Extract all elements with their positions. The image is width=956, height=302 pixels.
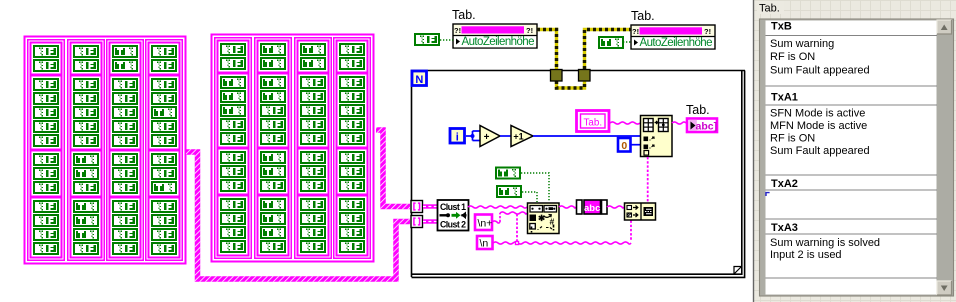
- wire cluster K1 to loop tunnel T2: [186, 152, 410, 279]
- boolean constant K1.c4[1] (F): [151, 45, 177, 58]
- boolean constant K2.c3[1] (T): [300, 43, 326, 56]
- svg-text:Tab.: Tab.: [759, 3, 780, 15]
- wire \n branch up: [516, 214, 518, 241]
- cluster K2 column 1 frame: [215, 38, 251, 258]
- boolean constant K1.c1[7] (F): [33, 134, 59, 147]
- boolean constant K2.c3[8] (F): [300, 151, 326, 164]
- boolean constant K2.c3[12] (F): [300, 212, 326, 225]
- cluster K1 column 2 group 2 frame: [71, 76, 102, 150]
- boolean constant K2.c4[5] (F): [339, 104, 365, 117]
- boolean constant K1.c3[4] (F): [112, 92, 138, 105]
- wire T2 to search-replace: [522, 192, 537, 202]
- string conversion function: [625, 203, 656, 220]
- cluster K1 column 4 group 1 frame: [149, 43, 180, 75]
- boolean constant K2.c4[6] (F): [339, 118, 365, 131]
- boolean constant K1.c1[11] (F): [33, 200, 59, 213]
- boolean constant K1.c2[4] (F): [73, 92, 99, 105]
- boolean constant K1.c4[8] (F): [151, 153, 177, 166]
- boolean constant K2.c2[9] (T): [260, 165, 286, 178]
- boolean constant K2.c1[6] (F): [220, 118, 246, 131]
- svg-text:Sum warning is solved: Sum warning is solved: [770, 237, 880, 249]
- boolean constant K2.c2[12] (T): [260, 212, 286, 225]
- cluster K2 column 3 group 3 frame: [298, 149, 329, 195]
- refnum tunnel B: [579, 70, 591, 82]
- boolean constant K2.c1[9] (F): [220, 165, 246, 178]
- loop tunnel T1 (auto-index): [411, 201, 423, 213]
- boolean constant K2.c1[2] (F): [220, 57, 246, 70]
- boolean constant K1.c4[5] (T): [151, 106, 177, 119]
- svg-text:RF is ON: RF is ON: [770, 51, 815, 63]
- boolean constant K1.c1[1] (F): [33, 45, 59, 58]
- svg-text:+: +: [484, 132, 490, 143]
- wire Tab terminal to replace-array-subset: [610, 122, 640, 124]
- svg-text:0: 0: [621, 140, 627, 152]
- boolean constant K1.c1[12] (F): [33, 214, 59, 227]
- wire tunnel A to tunnel B inside loop: [557, 81, 585, 88]
- svg-text:?!: ?!: [632, 27, 639, 36]
- svg-text:RF is ON: RF is ON: [770, 133, 815, 145]
- front panel background grid: [754, 0, 956, 302]
- cluster K1 column 1 group 1 frame: [31, 43, 62, 75]
- svg-text:TxB: TxB: [771, 21, 792, 33]
- cluster K1 column 1 frame: [28, 40, 64, 260]
- svg-text:SFN Mode is active: SFN Mode is active: [770, 108, 865, 120]
- boolean constant K1.c1[9] (F): [33, 167, 59, 180]
- svg-text:i: i: [456, 132, 459, 144]
- svg-text:TxA2: TxA2: [771, 178, 798, 190]
- svg-text:Clust 2: Clust 2: [440, 220, 466, 230]
- cluster K1 column 4 frame: [146, 40, 182, 260]
- boolean constant K2.c2[8] (T): [260, 151, 286, 164]
- wire \n+ out: [492, 221, 500, 223]
- boolean constant K1.c2[8] (T): [73, 153, 99, 166]
- cluster K1 column 4 group 3 frame: [149, 151, 180, 197]
- cluster K2 column 2 group 3 frame: [258, 149, 289, 195]
- cluster K2 column 3 frame: [295, 38, 331, 258]
- wire i out: [466, 135, 473, 137]
- svg-text:abc: abc: [584, 203, 600, 214]
- add function (+): [480, 126, 500, 147]
- boolean constant K2.c1[12] (F): [220, 212, 246, 225]
- svg-text:Tab.: Tab.: [631, 9, 655, 23]
- boolean constant K2.c2[11] (T): [260, 198, 286, 211]
- boolean constant K1.c2[9] (T): [73, 167, 99, 180]
- boolean constant K2.c3[2] (T): [300, 57, 326, 70]
- svg-text:Tab.: Tab.: [584, 117, 603, 128]
- svg-text:AutoZeilenhöhe: AutoZeilenhöhe: [640, 37, 713, 49]
- boolean constant F (U1 input): [414, 33, 440, 46]
- svg-text:TxA1: TxA1: [771, 92, 798, 104]
- wire refnum U1 to tunnel A: [537, 30, 557, 70]
- boolean constant K1.c2[10] (F): [73, 181, 99, 194]
- cluster K1 column 3 group 2 frame: [110, 76, 141, 150]
- svg-text:Tab.: Tab.: [452, 8, 476, 22]
- boolean constant K2.c4[7] (F): [339, 132, 365, 145]
- svg-text:abc]: abc]: [696, 121, 718, 133]
- svg-text:?!: ?!: [526, 26, 533, 35]
- cluster K1 column 2 frame: [68, 40, 104, 260]
- wire increment to replace-array-subset index: [533, 135, 640, 137]
- string constant \n: [477, 236, 493, 249]
- boolean constant K1.c4[13] (F): [151, 228, 177, 241]
- listbox separator lines: [766, 35, 938, 37]
- loop count terminal N: [412, 71, 427, 86]
- boolean constant K2.c1[8] (F): [220, 151, 246, 164]
- boolean constant K2.c2[4] (T): [260, 90, 286, 103]
- boolean constant K2.c2[1] (T): [260, 43, 286, 56]
- wire T1 to search-replace: [521, 173, 549, 202]
- svg-text:\n: \n: [480, 238, 489, 250]
- boolean constant K2.c1[1] (F): [220, 43, 246, 56]
- boolean constant T (U2 input): [598, 36, 624, 49]
- boolean constant K2.c3[10] (F): [300, 179, 326, 192]
- boolean constant K1.c3[12] (F): [112, 214, 138, 227]
- wire \n+ vertical: [499, 213, 501, 222]
- panel label Tab.: [757, 1, 784, 14]
- boolean constant K2.c3[5] (F): [300, 104, 326, 117]
- wire 0 to replace-array-subset: [631, 144, 640, 146]
- cluster K1 column 2 group 1 frame: [71, 43, 102, 75]
- boolean constant K1.c2[14] (F): [73, 242, 99, 255]
- svg-text:✱: ✱: [538, 213, 546, 223]
- wire cluster K2 to loop tunnel T1: [376, 130, 410, 207]
- cluster K2 column 4 frame: [334, 38, 370, 258]
- boolean constant K1.c3[2] (T): [112, 59, 138, 72]
- boolean constant K2.c1[11] (F): [220, 198, 246, 211]
- boolean constant K1.c4[10] (T): [151, 181, 177, 194]
- listbox scrollbar: [937, 21, 953, 296]
- wire add to increment: [500, 135, 511, 137]
- cluster K1 column 1 group 3 frame: [31, 151, 62, 197]
- boolean constant K2.c3[11] (F): [300, 198, 326, 211]
- svg-text:AutoZeilenhöhe: AutoZeilenhöhe: [462, 36, 535, 48]
- cluster K2 column 2 group 4 frame: [258, 196, 289, 256]
- boolean constant K1.c4[7] (F): [151, 134, 177, 147]
- boolean constant K2.c3[3] (F): [300, 76, 326, 89]
- cluster K2 column 2 group 2 frame: [258, 74, 289, 148]
- boolean constant K2.c2[7] (F): [260, 132, 286, 145]
- property node U1 AutoZeilenhoehe: [453, 24, 537, 48]
- wire junction dot: [515, 241, 519, 245]
- boolean constant K1.c3[1] (T): [112, 45, 138, 58]
- svg-text:?!: ?!: [454, 26, 461, 35]
- boolean constant K2.c4[11] (F): [339, 198, 365, 211]
- boolean constant K1.c4[2] (F): [151, 59, 177, 72]
- string constant \n+: [475, 215, 492, 231]
- boolean constant K2.c4[1] (F): [339, 43, 365, 56]
- boolean constant K2.c3[9] (F): [300, 165, 326, 178]
- svg-text:Sum Fault appeared: Sum Fault appeared: [770, 65, 870, 77]
- boolean constant K1.c2[12] (T): [73, 214, 99, 227]
- boolean constant K2.c4[4] (F): [339, 90, 365, 103]
- subVI Clust1 to Clust2: [438, 200, 469, 231]
- wire i branch vertical: [472, 131, 474, 141]
- wire i to add bottom input: [473, 140, 481, 142]
- cluster K2 column 1 group 1 frame: [218, 41, 249, 73]
- boolean constant K1.c3[7] (F): [112, 134, 138, 147]
- boolean constant K1.c3[3] (F): [112, 78, 138, 91]
- boolean constant K1.c3[6] (F): [112, 120, 138, 133]
- boolean constant K1.c1[8] (F): [33, 153, 59, 166]
- wire replace-array-subset to Tab indicator: [672, 122, 686, 124]
- cluster K2 column 2 frame: [255, 38, 291, 258]
- cluster K2 column 3 group 2 frame: [298, 74, 329, 148]
- boolean constant K1.c1[6] (F): [33, 120, 59, 133]
- listbox selection mark: [766, 193, 770, 196]
- boolean constant K1.c2[6] (F): [73, 120, 99, 133]
- boolean constant T (inner 1): [495, 167, 521, 180]
- cluster K1 column 3 group 3 frame: [110, 151, 141, 197]
- cluster K1 column 2 group 3 frame: [71, 151, 102, 197]
- wire \n to string function vertical: [630, 221, 632, 242]
- listbox Tab.: [760, 20, 953, 296]
- boolean constant K2.c4[8] (F): [339, 151, 365, 164]
- boolean constant K2.c1[14] (F): [220, 240, 246, 253]
- boolean constant K1.c1[13] (F): [33, 228, 59, 241]
- wire tunnel T1 to Clust node: [423, 204, 437, 208]
- boolean constant K1.c2[7] (F): [73, 134, 99, 147]
- wire tunnel T2 to Clust node: [423, 219, 437, 223]
- loop tunnel T2 (auto-index): [411, 216, 423, 228]
- boolean constant K2.c2[10] (F): [260, 179, 286, 192]
- boolean constant K2.c4[3] (F): [339, 76, 365, 89]
- boolean constant K2.c4[13] (F): [339, 226, 365, 239]
- wire i to add top input: [473, 130, 481, 132]
- cluster K2 column 2 group 1 frame: [258, 41, 289, 73]
- boolean constant K2.c3[13] (F): [300, 226, 326, 239]
- svg-text:Input 2 is used: Input 2 is used: [770, 249, 842, 261]
- boolean constant K1.c3[8] (F): [112, 153, 138, 166]
- boolean constant K2.c2[6] (F): [260, 118, 286, 131]
- svg-text:Sum warning: Sum warning: [770, 38, 834, 50]
- boolean constant K1.c3[11] (F): [112, 200, 138, 213]
- boolean constant K1.c2[5] (F): [73, 106, 99, 119]
- boolean constant K1.c2[1] (F): [73, 45, 99, 58]
- cluster K2 column 4 group 3 frame: [337, 149, 368, 195]
- boolean constant K1.c3[10] (F): [112, 181, 138, 194]
- cluster K1 column 4 group 4 frame: [149, 198, 180, 258]
- boolean constant K1.c2[11] (T): [73, 200, 99, 213]
- cluster K2 column 1 group 4 frame: [218, 196, 249, 256]
- numeric constant 0: [618, 138, 631, 152]
- junction dot: [471, 134, 475, 138]
- boolean constant K1.c4[9] (F): [151, 167, 177, 180]
- wire tunnel B to refnum U2: [585, 30, 632, 70]
- boolean constant K2.c2[13] (T): [260, 226, 286, 239]
- boolean constant K1.c2[13] (T): [73, 228, 99, 241]
- boolean constant K1.c4[6] (F): [151, 120, 177, 133]
- svg-text:N: N: [415, 74, 423, 86]
- search and replace string function: [528, 203, 560, 234]
- wire array-to-string to concat: [607, 206, 624, 208]
- wire Clust node to search-replace-string: [468, 206, 527, 208]
- boolean constant K2.c2[5] (F): [260, 104, 286, 117]
- cluster K2 column 4 group 1 frame: [337, 41, 368, 73]
- boolean constant K1.c3[5] (F): [112, 106, 138, 119]
- boolean constant K1.c1[10] (F): [33, 181, 59, 194]
- for loop N structure border: [412, 71, 746, 278]
- boolean constant K1.c1[14] (F): [33, 242, 59, 255]
- iteration terminal i: [450, 129, 465, 144]
- cluster K1 column 3 group 1 frame: [110, 43, 141, 75]
- svg-text:\n+: \n+: [478, 218, 493, 230]
- boolean constant K1.c1[2] (F): [33, 59, 59, 72]
- svg-text:+1: +1: [513, 132, 523, 142]
- cluster constant K2 outer frame: [212, 35, 374, 262]
- boolean constant K2.c3[14] (F): [300, 240, 326, 253]
- boolean constant K2.c3[6] (F): [300, 118, 326, 131]
- cluster K1 column 3 group 4 frame: [110, 198, 141, 258]
- array to spreadsheet string function: [577, 200, 608, 214]
- boolean constant K1.c3[9] (F): [112, 167, 138, 180]
- svg-text:Clust 1: Clust 1: [440, 202, 466, 212]
- Tab. string array indicator terminal [abc]: [687, 119, 717, 133]
- wire \n+ to search-replace-string: [500, 212, 527, 214]
- svg-text:MFN Mode is active: MFN Mode is active: [770, 120, 867, 132]
- boolean constant T (inner 2): [496, 185, 522, 198]
- boolean constant K1.c4[4] (F): [151, 92, 177, 105]
- boolean constant K1.c4[14] (F): [151, 242, 177, 255]
- cluster K1 column 1 group 2 frame: [31, 76, 62, 150]
- boolean constant K1.c1[5] (F): [33, 106, 59, 119]
- cluster K1 column 3 frame: [107, 40, 143, 260]
- cluster K2 column 1 group 3 frame: [218, 149, 249, 195]
- cluster constant K1 outer frame: [25, 37, 186, 264]
- cluster K2 column 4 group 2 frame: [337, 74, 368, 148]
- boolean constant K1.c2[3] (F): [73, 78, 99, 91]
- wire bool F to U1: [440, 39, 453, 41]
- boolean constant K2.c4[2] (F): [339, 57, 365, 70]
- Tab. listbox terminal (local): [577, 111, 610, 132]
- boolean constant K2.c4[9] (F): [339, 165, 365, 178]
- loop corner fold: [734, 267, 742, 275]
- boolean constant K2.c2[14] (F): [260, 240, 286, 253]
- boolean constant K2.c3[7] (F): [300, 132, 326, 145]
- boolean constant K2.c1[10] (F): [220, 179, 246, 192]
- cluster K1 column 2 group 4 frame: [71, 198, 102, 258]
- boolean constant K2.c4[10] (F): [339, 179, 365, 192]
- property node U2 AutoZeilenhoehe: [631, 25, 715, 49]
- cluster K2 column 1 group 2 frame: [218, 74, 249, 148]
- wire search-replace to array-to-string: [559, 206, 576, 208]
- boolean constant K1.c1[4] (F): [33, 92, 59, 105]
- cluster K1 column 4 group 2 frame: [149, 76, 180, 150]
- cluster K2 column 3 group 4 frame: [298, 196, 329, 256]
- svg-text:Tab.: Tab.: [686, 103, 710, 117]
- boolean constant K2.c4[14] (F): [339, 240, 365, 253]
- replace array subset function: [641, 116, 673, 157]
- boolean constant K2.c3[4] (F): [300, 90, 326, 103]
- wire string function up to replace-array-subset element input: [647, 157, 649, 202]
- boolean constant K2.c4[12] (F): [339, 212, 365, 225]
- boolean constant K1.c4[11] (F): [151, 200, 177, 213]
- boolean constant K2.c1[5] (T): [220, 104, 246, 117]
- svg-text:TxA3: TxA3: [771, 222, 798, 234]
- wire \n to icons: [493, 242, 631, 244]
- boolean constant K2.c1[13] (F): [220, 226, 246, 239]
- boolean constant K1.c3[13] (F): [112, 228, 138, 241]
- boolean constant K1.c2[2] (F): [73, 59, 99, 72]
- cluster K1 column 1 group 4 frame: [31, 198, 62, 258]
- svg-text:Sum Fault appeared: Sum Fault appeared: [770, 145, 870, 157]
- boolean constant K2.c2[2] (T): [260, 57, 286, 70]
- boolean constant K2.c1[4] (T): [220, 90, 246, 103]
- boolean constant K2.c1[3] (T): [220, 76, 246, 89]
- cluster K2 column 4 group 4 frame: [337, 196, 368, 256]
- cluster K2 column 3 group 1 frame: [298, 41, 329, 73]
- wire bool T to U2: [623, 41, 631, 43]
- boolean constant K2.c2[3] (T): [260, 76, 286, 89]
- boolean constant K1.c4[3] (F): [151, 78, 177, 91]
- boolean constant K1.c1[3] (F): [33, 78, 59, 91]
- boolean constant K2.c1[7] (F): [220, 132, 246, 145]
- boolean constant K1.c4[12] (F): [151, 214, 177, 227]
- boolean constant K1.c3[14] (F): [112, 242, 138, 255]
- refnum tunnel A: [551, 70, 563, 82]
- svg-text:?!: ?!: [704, 27, 711, 36]
- increment function (+1): [511, 126, 533, 147]
